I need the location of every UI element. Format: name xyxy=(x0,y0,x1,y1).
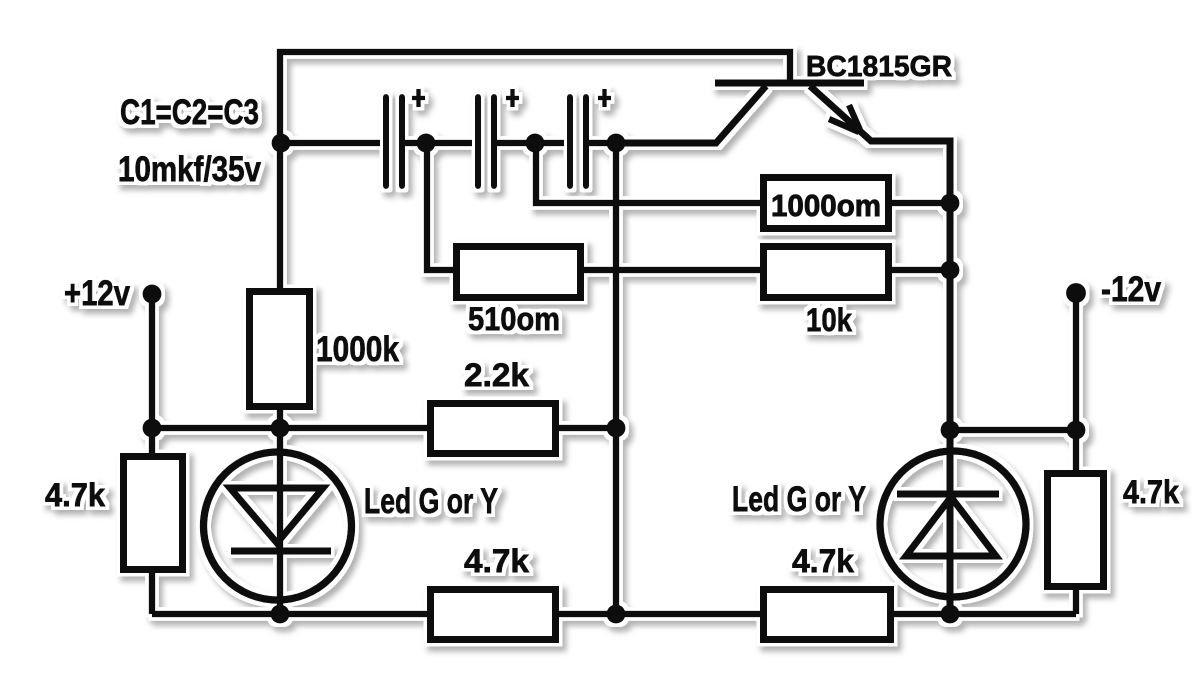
node: 1000om right on right rail xyxy=(941,194,960,213)
resistor R? 2.2k box xyxy=(431,404,556,454)
resistor R? 1000k box xyxy=(250,292,310,407)
svg-text:4.7k: 4.7k xyxy=(1123,474,1179,510)
node: LED D2 bottom xyxy=(941,605,960,624)
LED D1 cathode bar xyxy=(231,548,331,555)
svg-text:2.2k: 2.2k xyxy=(464,357,529,393)
node: 10k right on right rail xyxy=(941,261,960,280)
svg-text:Led G or Y: Led G or Y xyxy=(732,480,866,519)
node: +12v terminal xyxy=(143,285,162,304)
wire: -12v vertical x=1076 xyxy=(1073,293,1080,614)
LED D2 triangle (anode, pointing up) xyxy=(906,497,996,556)
node: 1000k bottom / LED D1 top xyxy=(271,419,290,438)
LED D2 circle (right) xyxy=(880,451,1026,597)
resistor R? 4.7k bottom-right box xyxy=(764,590,891,640)
wire: +12v drop and left column x=152 xyxy=(149,294,156,614)
node: after C3 / emitter rail xyxy=(607,134,626,153)
capacitor C2 plus sign xyxy=(506,89,519,107)
svg-text:1000k: 1000k xyxy=(316,330,399,369)
svg-text:1000om: 1000om xyxy=(771,188,881,223)
transistor Q1 emitter diagonal, collector wire right and right vertical rail x=950 xyxy=(810,86,950,614)
wire: drop from node after C2 to 1000om left xyxy=(536,143,760,203)
resistor R? 4.7k left box xyxy=(124,457,183,570)
wire: capacitor rail y=143 segments xyxy=(281,140,716,147)
svg-text:BC1815GR: BC1815GR xyxy=(806,51,952,83)
wire: right row y=430 xyxy=(950,427,1076,434)
node: after C1 xyxy=(417,134,436,153)
LED D2 cathode bar xyxy=(897,491,999,498)
resistor R? 1000om box xyxy=(764,178,889,229)
resistor R? 510om box xyxy=(457,247,581,298)
svg-text:4.7k: 4.7k xyxy=(792,543,854,579)
svg-text:10k: 10k xyxy=(806,302,852,338)
svg-text:C1=C2=C3: C1=C2=C3 xyxy=(120,93,259,132)
wire: drop from node after C1 to 510om left (x=427) xyxy=(427,143,453,270)
node: left row junction xyxy=(143,419,162,438)
capacitor C3 plus sign xyxy=(598,89,611,107)
svg-text:510om: 510om xyxy=(468,301,560,337)
capacitor C1 plus sign xyxy=(412,89,425,107)
node: LED D1 bottom xyxy=(271,605,290,624)
svg-text:4.7k: 4.7k xyxy=(464,543,529,579)
wire: bottom rail y=614 xyxy=(152,611,1076,618)
node: 2.2k right on middle rail xyxy=(607,419,626,438)
svg-text:-12v: -12v xyxy=(1101,270,1161,309)
capacitor C2 plates xyxy=(478,97,494,186)
node: -12v line junction xyxy=(1067,421,1086,440)
resistor R? 4.7k bottom-left box xyxy=(431,590,556,640)
capacitor C1 plates xyxy=(386,97,402,186)
node: after C2 xyxy=(526,134,545,153)
node: right rail / LED D2 top xyxy=(941,421,960,440)
transistor Q1 BC1815GR base bar xyxy=(715,80,864,87)
transistor Q1 collector diagonal to emitter rail xyxy=(616,86,766,143)
capacitor C3 plates xyxy=(570,97,586,186)
svg-text:+12v: +12v xyxy=(64,274,130,313)
node: junction A top-left (cap rail / top rail / 1000k) xyxy=(272,134,291,153)
LED D1 circle (left) xyxy=(204,452,352,600)
node: -12v terminal xyxy=(1066,283,1086,303)
svg-text:4.7k: 4.7k xyxy=(45,477,105,513)
wire: left row y=428 xyxy=(152,425,616,432)
wire: 510om to 10k row y=270 xyxy=(584,267,950,274)
LED D1 triangle (anode, pointing down) xyxy=(230,488,323,543)
wire: 1000om right to right rail xyxy=(892,200,950,207)
svg-text:10mkf/35v: 10mkf/35v xyxy=(118,150,261,189)
wire: middle vertical rail x=616 xyxy=(613,143,620,614)
svg-text:Led G or Y: Led G or Y xyxy=(364,482,498,521)
transistor Q1 emitter arrow barbs xyxy=(829,105,860,132)
node: middle rail bottom xyxy=(607,605,626,624)
wire: top rail + left vertical rail (x=280) xyxy=(280,52,790,614)
resistor R? 10k box xyxy=(764,247,889,298)
resistor R? 4.7k right box xyxy=(1048,474,1104,587)
